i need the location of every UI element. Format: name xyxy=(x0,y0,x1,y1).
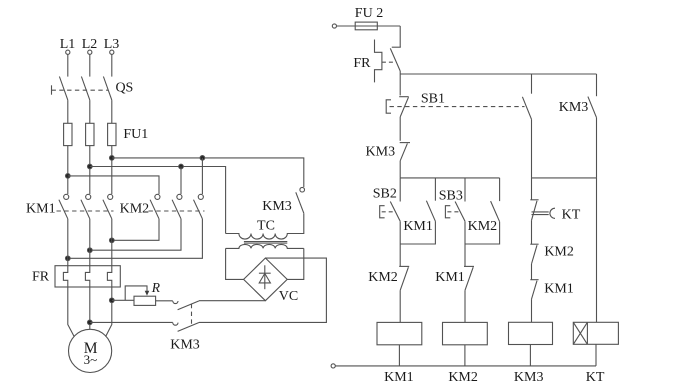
wire KM1 self drop xyxy=(434,178,436,201)
wire KM2 NC to KM1 NC xyxy=(531,264,533,280)
resistor R body xyxy=(134,296,156,305)
fuse FU1 pole 1 xyxy=(64,123,72,145)
svg-text:KM1: KM1 xyxy=(435,270,465,285)
thermal relay FR heater 3 xyxy=(107,266,111,287)
node KM2 pole2 tap xyxy=(179,164,184,169)
wire L3 to QS xyxy=(111,54,113,76)
wire TC secondary right to VC xyxy=(287,248,304,279)
svg-text:KM1: KM1 xyxy=(384,370,414,385)
svg-text:KM2: KM2 xyxy=(448,370,478,385)
contactor KM3 brake pole lower xyxy=(173,323,199,332)
contactor KM2 pole 3 xyxy=(194,194,204,218)
contact KM2 self-hold xyxy=(491,201,500,222)
wire SB2 drop xyxy=(399,178,401,202)
switch QS pole 1 blade xyxy=(59,77,67,101)
svg-text:KM3: KM3 xyxy=(262,199,292,214)
node KM2 pole3 tap xyxy=(200,156,205,161)
coil KM2 xyxy=(443,322,488,344)
wire top row to right branches xyxy=(400,73,596,75)
node control top terminal xyxy=(332,24,336,28)
wire KM3 brake lower to rectifier plus xyxy=(199,258,326,322)
wire SB1 NO drop xyxy=(531,74,533,94)
fuse FU2 xyxy=(355,22,377,30)
switch QS handle bar xyxy=(51,85,53,94)
wire KM2 coil to rail xyxy=(464,345,466,366)
node R tap xyxy=(110,298,115,303)
wire phase L2 FU1 to KM1 xyxy=(89,146,91,194)
contactor KM3 brake linkage dashed xyxy=(191,304,193,328)
wire SB3 to KM1 NC xyxy=(464,221,466,266)
contact KM1 NC in KM3 branch xyxy=(530,280,538,299)
wire KM2 pole2 drop xyxy=(180,167,182,195)
switch QS pole 2 blade xyxy=(81,77,89,101)
button SB3 linkage dashed xyxy=(447,211,460,213)
button SB2 linkage dashed xyxy=(382,211,395,213)
wire KT coil to rail xyxy=(595,344,597,366)
svg-text:KM1: KM1 xyxy=(26,201,56,216)
node brake tap xyxy=(88,320,93,325)
contact KM1 self-hold xyxy=(426,201,435,222)
button SB1 NC contact xyxy=(399,97,409,117)
svg-text:KT: KT xyxy=(562,207,581,222)
svg-text:FR: FR xyxy=(32,269,50,284)
coil KT with delay box xyxy=(573,322,618,344)
wire KM3 brake upper to rectifier minus xyxy=(199,300,265,302)
wire FU2 down to FR contact xyxy=(399,26,401,47)
wire KM2 pole3 to L1 node xyxy=(68,219,203,258)
wire KM2 pole2 to L2 node xyxy=(90,219,181,250)
wire branch row L3 to KM3 xyxy=(112,158,304,187)
wire FR to motor mid xyxy=(89,287,91,329)
wire KM1 pole3 to FR xyxy=(111,219,113,266)
contactor KM1 pole 3 xyxy=(103,194,113,218)
thermal FR actuator bump xyxy=(375,40,382,83)
contact KM3 NC interlock xyxy=(400,143,410,161)
svg-text:KM2: KM2 xyxy=(468,219,498,234)
svg-text:KT: KT xyxy=(586,370,605,385)
wire SB1 to KM3 NC xyxy=(399,117,401,141)
svg-text:KM3: KM3 xyxy=(514,370,544,385)
wire KM2 NC to KM1 coil xyxy=(399,290,401,322)
motor M 3~ xyxy=(69,329,112,372)
button SB3 NO contact xyxy=(455,202,465,222)
node L1 terminal xyxy=(66,50,70,54)
node KM2 out to L1 xyxy=(66,256,71,261)
thermal relay FR heater 1 xyxy=(63,266,67,287)
svg-text:KM2: KM2 xyxy=(544,245,574,260)
svg-text:L1: L1 xyxy=(60,37,76,52)
contactor KM2 pole 2 xyxy=(172,194,182,218)
wire KM3 self drop xyxy=(596,74,598,96)
wire KM3 coil to rail xyxy=(529,345,531,366)
thermal relay FR box xyxy=(55,266,120,287)
contact KM2 NC interlock xyxy=(399,266,409,290)
thermal contact FR control xyxy=(390,47,401,71)
resistor R wiper arrow xyxy=(125,286,149,300)
wire SB2 group join xyxy=(400,221,435,244)
wire branch row L1 to KM2 pole1 xyxy=(68,176,159,194)
contactor KM3 main contact xyxy=(296,187,305,213)
wire QS to FU1 pole 1 xyxy=(67,100,69,123)
node L3 terminal xyxy=(110,50,114,54)
svg-text:FU 2: FU 2 xyxy=(355,6,383,21)
wire brake tap to KM3 brake lower xyxy=(90,321,173,323)
contactor KM2 pole 1 xyxy=(150,194,160,218)
svg-text:KM1: KM1 xyxy=(403,219,433,234)
svg-text:VC: VC xyxy=(279,289,298,304)
wire KM3 self to row3 xyxy=(596,118,598,178)
wire TC secondary left to VC xyxy=(226,248,244,279)
wire FR to motor left xyxy=(68,287,74,337)
wire SB3 group join xyxy=(465,222,500,244)
coil KM1 xyxy=(377,322,422,344)
wire branch row L2 to TC xyxy=(90,167,226,234)
contact KM1 NC interlock xyxy=(464,266,474,290)
node phase L1 branch xyxy=(66,174,71,179)
wire KM3 self branch down to KT coil xyxy=(596,178,598,322)
button SB1 NO contact xyxy=(522,97,531,120)
wire KM2 self drop xyxy=(499,178,501,201)
wire KM1 pole1 to FR xyxy=(67,219,69,266)
wire QS to FU1 pole 2 xyxy=(89,100,91,123)
wire QS to FU1 pole 3 xyxy=(111,100,113,123)
wire terminal to FU2 xyxy=(337,25,401,27)
transformer TC core xyxy=(244,242,287,244)
wire bottom rail xyxy=(335,365,596,367)
node KM2 out to L2 xyxy=(88,248,93,253)
wire phase L3 FU1 to KM1 xyxy=(111,146,113,194)
node phase L3 branch xyxy=(110,156,115,161)
contactor KM1 pole 2 xyxy=(81,194,91,218)
button SB2 actuator xyxy=(380,206,385,218)
svg-text:SB1: SB1 xyxy=(421,91,445,106)
wire R tap to resistor xyxy=(112,299,134,301)
node phase L2 branch xyxy=(88,164,93,169)
time contact KT delayed NC xyxy=(530,200,555,221)
svg-text:L3: L3 xyxy=(104,37,120,52)
fuse FU1 pole 2 xyxy=(86,123,94,145)
wire SB3 drop xyxy=(464,178,466,202)
contactor KM2 linkage dashed xyxy=(149,210,205,212)
svg-text:QS: QS xyxy=(115,81,133,96)
svg-text:KM1: KM1 xyxy=(544,282,574,297)
switch QS linkage dashed xyxy=(52,89,109,91)
contactor KM1 linkage dashed xyxy=(57,210,114,212)
contact KM2 NC in KM3 branch xyxy=(530,244,538,264)
svg-text:KM3: KM3 xyxy=(170,338,200,353)
thermal relay FR heater 2 xyxy=(85,266,89,287)
wire SB1 NO to row3 xyxy=(531,119,533,178)
coil KM3 xyxy=(509,322,553,344)
wire KM1 NC to KM3 coil xyxy=(531,299,533,322)
contactor KM1 pole 1 xyxy=(59,194,69,218)
wire KM1 pole2 to FR xyxy=(89,219,91,266)
svg-text:KM2: KM2 xyxy=(368,270,398,285)
button SB1 linkage dashed xyxy=(390,106,525,108)
wire SB2 to KM2 NC xyxy=(399,221,401,266)
svg-text:KM3: KM3 xyxy=(559,100,589,115)
wire L2 to QS xyxy=(89,54,91,76)
rectifier VC diode xyxy=(259,265,271,289)
wire row3 to KT contact xyxy=(531,178,533,200)
svg-text:SB3: SB3 xyxy=(439,188,463,203)
wire KM2 pole1 drop xyxy=(158,193,160,195)
wire L1 to QS xyxy=(67,54,69,76)
button SB2 NO contact xyxy=(390,202,400,222)
svg-text:KM2: KM2 xyxy=(120,201,150,216)
wire KM3 NC to row2 xyxy=(399,161,401,178)
button SB1 actuator xyxy=(386,100,391,113)
wire FR junction row xyxy=(399,71,401,95)
wire KM2 pole1 to L3 node xyxy=(112,219,159,241)
contactor KM3 brake pole upper xyxy=(173,301,199,310)
node control bottom terminal xyxy=(331,364,335,368)
wire KM2 pole3 drop xyxy=(201,158,203,194)
contact KM3 self-hold xyxy=(588,97,597,118)
node KM2 out to L3 xyxy=(110,238,115,243)
svg-text:FU1: FU1 xyxy=(123,127,148,142)
wire KT to KM2 NC xyxy=(531,220,533,244)
wire FR to motor right xyxy=(106,287,112,337)
svg-text:L2: L2 xyxy=(82,37,98,52)
svg-text:SB2: SB2 xyxy=(373,187,397,202)
rectifier VC bridge xyxy=(244,258,288,301)
node L2 terminal xyxy=(88,50,92,54)
transformer TC primary xyxy=(226,213,304,239)
thermal FR dashed link xyxy=(382,61,394,63)
wire resistor to KM3 brake upper xyxy=(156,300,173,302)
wire phase L1 FU1 to KM1 xyxy=(67,146,69,194)
wire KM1 NC to KM2 coil xyxy=(464,290,466,322)
fuse FU1 pole 3 xyxy=(108,123,116,145)
button SB3 actuator xyxy=(445,206,450,218)
wire row3 horizontal xyxy=(532,177,597,179)
svg-text:FR: FR xyxy=(353,56,371,71)
transformer TC secondary xyxy=(226,244,304,248)
wire KM1 coil to rail xyxy=(398,345,400,366)
svg-text:TC: TC xyxy=(257,218,275,233)
svg-text:R: R xyxy=(151,280,161,295)
svg-text:3~: 3~ xyxy=(84,352,98,367)
svg-text:KM3: KM3 xyxy=(366,145,396,160)
wire row2 horizontal xyxy=(400,177,499,179)
switch QS pole 3 blade xyxy=(103,77,111,101)
